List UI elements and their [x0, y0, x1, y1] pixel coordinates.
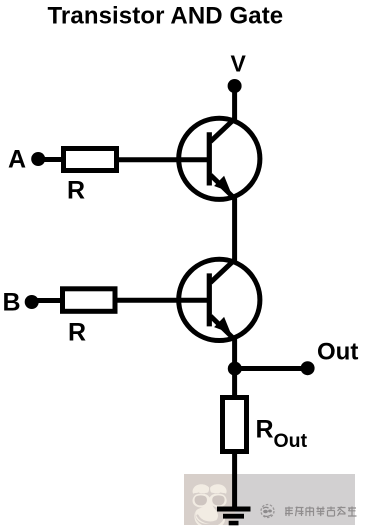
chin crescent [194, 512, 225, 530]
svg-text:B: B [3, 289, 21, 317]
wire Q1 emitter to Q2 collector [232, 196, 237, 262]
svg-text:Out: Out [317, 339, 358, 366]
transistor Q2 base bar [207, 273, 212, 326]
ground bar 3 [229, 521, 239, 526]
transistor Q2 emitter line [211, 316, 235, 340]
ground bar 1 [217, 507, 251, 512]
svg-text:R: R [67, 177, 85, 205]
resistor R2 [63, 289, 116, 312]
svg-text:R: R [68, 319, 86, 347]
left hair tuft [193, 484, 210, 493]
transistor Q2 emitter arrowhead [214, 317, 231, 334]
wire R1 to Q1 base [119, 157, 209, 162]
wire junction down to resistor Rout [232, 369, 237, 397]
transistor Q1 emitter line [211, 175, 235, 199]
watermark banner [184, 474, 355, 525]
svg-text:A: A [8, 146, 26, 174]
watermark avatar background [184, 474, 235, 525]
watermark text (7 CJK glyph marks) [285, 507, 357, 517]
terminal dot A [31, 152, 45, 166]
left lens [195, 495, 207, 505]
wire R2 to Q2 base [117, 298, 209, 303]
terminal dot V [228, 79, 242, 93]
smile [198, 516, 217, 523]
svg-text:Out: Out [274, 430, 308, 452]
svg-text:R: R [256, 416, 274, 444]
wire B dot to resistor R2 [31, 298, 62, 303]
ground bar 2 [223, 514, 244, 519]
wire V down to Q1 collector [232, 86, 237, 122]
wire junction to Out terminal [235, 366, 307, 371]
transistor Q2 circle [179, 259, 260, 340]
resistor R1 [64, 149, 117, 171]
terminal dot B [25, 295, 39, 309]
wire A dot to resistor R1 [38, 157, 63, 162]
transistor Q1 emitter arrowhead [214, 176, 231, 193]
svg-text:V: V [231, 51, 247, 77]
wire Rout to ground [232, 451, 237, 509]
transistor Q1 circle [179, 118, 260, 199]
transistor Q2 collector line [211, 260, 235, 283]
transistor Q1 base bar [207, 132, 212, 185]
right lens [212, 495, 224, 505]
terminal dot Out [301, 361, 315, 375]
nose + muzzle bulb [195, 499, 218, 524]
glasses cream frame [193, 494, 227, 508]
right hair tuft [210, 484, 227, 493]
watermark small icon [261, 505, 274, 518]
wire Q2 emitter down to output junction [232, 337, 237, 369]
junction dot [228, 362, 242, 376]
resistor Rout [223, 398, 247, 452]
svg-text:Transistor AND Gate: Transistor AND Gate [48, 3, 284, 30]
transistor Q1 collector line [211, 119, 235, 142]
